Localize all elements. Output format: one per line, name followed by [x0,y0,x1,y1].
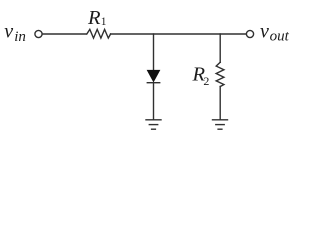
resistor R2 [216,62,224,86]
wire R2 to ground [219,87,221,120]
ground (diode branch) [146,120,161,129]
terminal vout [246,30,253,37]
wire vin terminal to R1 [42,33,86,35]
label R1 [87,7,107,29]
svg-text:in: in [14,29,26,45]
wire R1 to vout terminal [111,33,247,35]
svg-text:1: 1 [101,16,107,28]
wire node A to diode anode [153,34,155,70]
label vout [260,20,290,44]
svg-text:v: v [260,20,269,42]
ground (R2 branch) [213,120,228,129]
svg-text:2: 2 [203,74,209,88]
label vin [4,21,26,45]
wire diode cathode to ground [153,83,155,120]
svg-text:R: R [87,7,101,29]
diode D [147,70,159,82]
svg-text:out: out [270,29,290,45]
wire node B to R2 [219,34,221,62]
label R2 [192,63,210,88]
terminal vin [35,30,42,37]
resistor R1 [87,29,111,38]
svg-text:v: v [4,21,13,43]
